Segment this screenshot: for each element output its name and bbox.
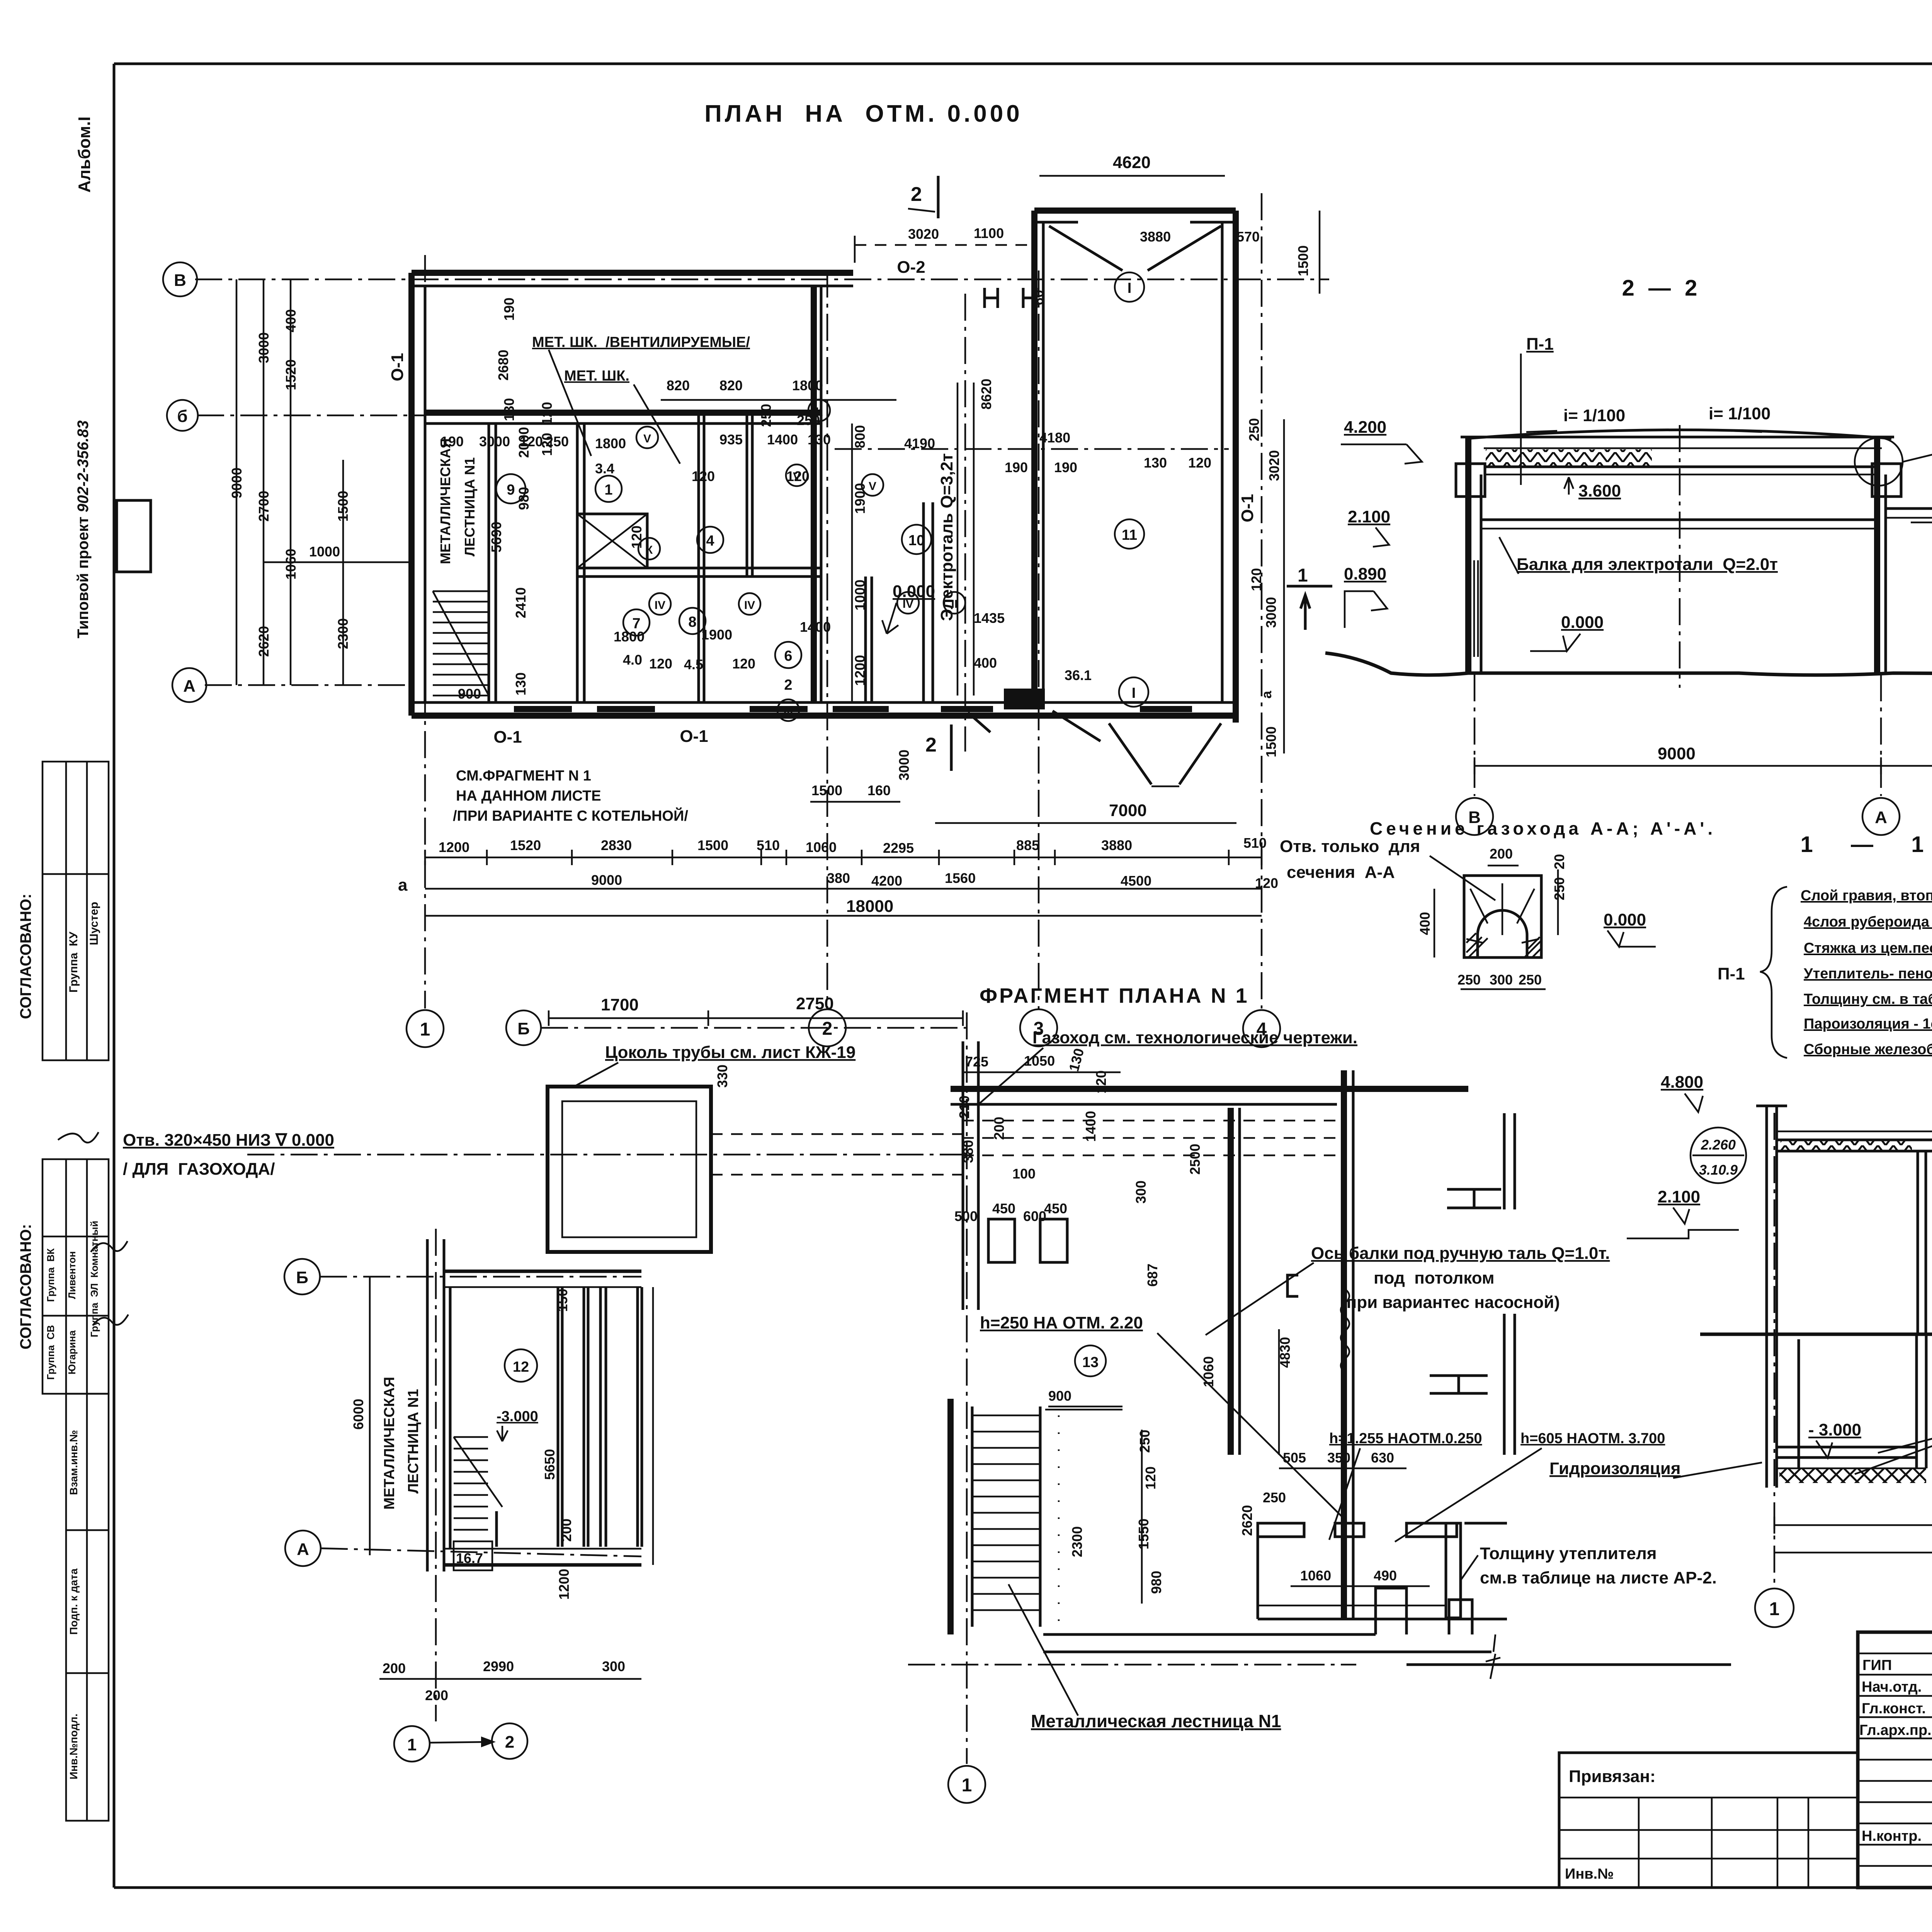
svg-text:2: 2 — [822, 1019, 833, 1039]
svg-text:Подп. к дата: Подп. к дата — [68, 1568, 80, 1635]
1-1 axis circle 1 — [1755, 1588, 1794, 1627]
chimney top dims — [549, 1017, 963, 1019]
svg-text:250: 250 — [758, 404, 774, 427]
svg-text:16.7: 16.7 — [456, 1550, 483, 1566]
svg-text:200: 200 — [1490, 846, 1513, 862]
svg-text:3.4: 3.4 — [595, 461, 614, 476]
svg-text:2.100: 2.100 — [1348, 507, 1390, 526]
svg-text:500: 500 — [954, 1208, 978, 1224]
svg-text:МЕТ. ШК.: МЕТ. ШК. — [564, 368, 629, 384]
1-1 floor line — [1700, 1333, 1932, 1336]
svg-text:980: 980 — [516, 487, 532, 510]
svg-text:Б: Б — [517, 1019, 530, 1038]
fragment axis circle 1 — [948, 1766, 985, 1803]
svg-text:4.800: 4.800 — [1661, 1073, 1703, 1092]
svg-text:725: 725 — [965, 1054, 988, 1070]
svg-text:450: 450 — [1044, 1201, 1067, 1216]
svg-text:4.5: 4.5 — [684, 656, 703, 672]
basement: axis B line — [320, 1276, 641, 1278]
svg-text:МЕТАЛЛИЧЕСКАЯ: МЕТАЛЛИЧЕСКАЯ — [381, 1377, 398, 1510]
svg-text:1800: 1800 — [595, 435, 626, 451]
room circle 4 — [697, 527, 723, 553]
svg-text:3880: 3880 — [1140, 229, 1171, 245]
svg-text:120: 120 — [1255, 875, 1278, 891]
svg-text:120: 120 — [1143, 1466, 1158, 1490]
svg-text:0.000: 0.000 — [893, 582, 935, 601]
partition x1808 — [697, 413, 700, 702]
svg-text:130: 130 — [513, 672, 529, 696]
stair room partition — [488, 423, 490, 702]
top dims of hall — [1039, 175, 1225, 177]
svg-text:190: 190 — [501, 298, 517, 321]
svg-text:Отв. только для: Отв. только для — [1280, 837, 1420, 856]
big staircase treads — [972, 1415, 1040, 1610]
svg-text:120: 120 — [649, 656, 672, 672]
svg-text:2000: 2000 — [516, 427, 532, 458]
fragment tall right wall — [1341, 1070, 1347, 1618]
svg-text:Привязан:: Привязан: — [1569, 1767, 1656, 1786]
svg-text:/ПРИ ВАРИАНТЕ С КОТЕЛЬНОЙ/: /ПРИ ВАРИАНТЕ С КОТЕЛЬНОЙ/ — [453, 807, 688, 824]
plan axis vertical 2 — [827, 270, 828, 1009]
svg-text:О-1: О-1 — [680, 727, 708, 746]
svg-text:Электроталь Q=3,2т: Электроталь Q=3,2т — [937, 453, 956, 621]
middle partition wall — [577, 567, 821, 570]
staircase left wall — [947, 1399, 954, 1634]
svg-text:4слоя рубероида на битумной ма: 4слоя рубероида на битумной мастике — [1804, 914, 1932, 930]
room circle II — [944, 592, 965, 614]
ground line 2-2 — [1325, 653, 1932, 675]
svg-text:120: 120 — [629, 526, 645, 549]
section 2-2 axis leaders — [1474, 674, 1476, 796]
svg-text:3020: 3020 — [1266, 450, 1282, 481]
partition x2240 tambour — [864, 577, 867, 702]
section 2-2 axis circle V — [1456, 798, 1493, 835]
svg-text:1: 1 — [604, 482, 612, 498]
svg-text:Группа ВК: Группа ВК — [45, 1248, 56, 1302]
svg-text:Ливентон: Ливентон — [66, 1251, 78, 1299]
left margin: approval table 1 — [43, 762, 109, 1060]
1-1 dim line 9000 4500 4500 — [1774, 1524, 1932, 1526]
svg-text:0.000: 0.000 — [1604, 910, 1646, 929]
plan bottom axis circles — [406, 1010, 444, 1047]
porch piers — [985, 288, 998, 308]
svg-text:Цоколь трубы см. лист КЖ-19: Цоколь трубы см. лист КЖ-19 — [605, 1043, 855, 1062]
1-1 left wall — [1765, 1106, 1768, 1488]
partition x1494 — [576, 423, 579, 702]
title block stamp rows — [1858, 1653, 1932, 1866]
svg-text:Югарина: Югарина — [66, 1330, 78, 1374]
svg-text:400: 400 — [283, 309, 299, 332]
basement top wall — [444, 1270, 641, 1273]
basement stair cell — [454, 1541, 492, 1570]
left wall capital — [1456, 464, 1485, 497]
flue corner hatch right — [1524, 937, 1541, 957]
svg-text:- 3.000: - 3.000 — [1808, 1420, 1861, 1439]
shaft box with cross — [577, 514, 647, 568]
svg-text:4: 4 — [706, 533, 714, 549]
svg-text:(при вариантес насосной): (при вариантес насосной) — [1341, 1293, 1560, 1312]
room circle IV a — [649, 593, 671, 615]
plan axis vertical 4 — [1261, 193, 1263, 1009]
svg-text:450: 450 — [992, 1201, 1015, 1216]
left margin: approval table 2 — [43, 1159, 109, 1394]
1-1 dim line 18000 — [1774, 1552, 1932, 1554]
svg-text:Гл.арх.пр.: Гл.арх.пр. — [1859, 1722, 1932, 1738]
svg-text:В: В — [174, 271, 186, 290]
svg-text:300: 300 — [602, 1658, 625, 1674]
basement partitions right — [557, 1287, 560, 1547]
boiler room bottom walls crosshatched — [1258, 1523, 1461, 1618]
plan axis circle B — [163, 262, 197, 296]
svg-text:1000: 1000 — [309, 544, 340, 560]
svg-text:Слой гравия, втопленный вмасти: Слой гравия, втопленный вмастику — [1801, 888, 1932, 904]
svg-text:Н.контр.: Н.контр. — [1862, 1828, 1922, 1844]
svg-text:3000: 3000 — [256, 332, 272, 363]
beam axis bracket symbol — [1287, 1275, 1298, 1296]
hall gate splay diagonals bottom — [1109, 723, 1151, 784]
basement: axis A line — [321, 1548, 641, 1556]
svg-text:Группа КУ: Группа КУ — [67, 932, 80, 993]
flue note leader — [978, 1048, 1043, 1105]
svg-text:1800: 1800 — [792, 378, 823, 393]
plan axis circle A — [172, 668, 206, 702]
svg-text:13: 13 — [1082, 1354, 1099, 1371]
room circle 6 with 2 and III — [775, 642, 801, 668]
basement room circle 12 — [505, 1349, 537, 1382]
bottom outer wall — [412, 713, 1236, 719]
1-1 basement pit walls — [1798, 1339, 1800, 1468]
svg-text:Толщину утеплителя: Толщину утеплителя — [1480, 1544, 1657, 1563]
svg-text:1500: 1500 — [335, 491, 351, 522]
svg-text:Группа СВ: Группа СВ — [45, 1325, 56, 1380]
svg-text:400: 400 — [1417, 912, 1433, 935]
svg-text:150: 150 — [554, 1289, 570, 1312]
svg-text:Альбом.I: Альбом.I — [75, 116, 94, 192]
svg-text:П-1: П-1 — [1526, 335, 1554, 354]
svg-text:а: а — [398, 876, 408, 895]
svg-text:Сборные железобетонные плиты: Сборные железобетонные плиты — [1804, 1041, 1932, 1058]
svg-text:-3.000: -3.000 — [497, 1408, 538, 1425]
svg-text:I: I — [1132, 685, 1136, 701]
dim line 4190-4180 dashdot — [835, 448, 1229, 450]
svg-text:2.260: 2.260 — [1701, 1137, 1736, 1153]
svg-text:Взам.инв.№: Взам.инв.№ — [68, 1430, 80, 1495]
svg-text:350: 350 — [1327, 1450, 1350, 1466]
svg-text:1060: 1060 — [1201, 1356, 1216, 1387]
room circle V c — [862, 474, 883, 496]
room circle V — [636, 427, 658, 448]
svg-text:1500: 1500 — [1295, 245, 1311, 276]
svg-text:0.890: 0.890 — [1344, 565, 1386, 583]
svg-text:800: 800 — [852, 425, 868, 448]
svg-text:600: 600 — [1023, 1208, 1046, 1224]
fragment dim chain lines — [963, 1071, 1121, 1073]
svg-text:120: 120 — [539, 402, 555, 425]
left wall lower window strips — [1470, 560, 1478, 657]
svg-text:9: 9 — [507, 482, 515, 498]
svg-text:1200: 1200 — [439, 839, 469, 855]
svg-text:2 — 2: 2 — 2 — [1622, 276, 1701, 301]
svg-text:под потолком: под потолком — [1374, 1269, 1495, 1287]
label h=250 leader — [1157, 1333, 1344, 1519]
roof camber top line — [1466, 430, 1891, 439]
fragment east wall upper — [1503, 1113, 1506, 1209]
fragment east wall lower — [1503, 1314, 1506, 1455]
svg-text:2: 2 — [784, 677, 792, 693]
svg-text:2620: 2620 — [1239, 1505, 1255, 1536]
svg-text:2620: 2620 — [256, 626, 272, 657]
svg-text:490: 490 — [1374, 1568, 1397, 1583]
h leaders — [1329, 1448, 1360, 1540]
svg-text:380: 380 — [827, 870, 850, 886]
svg-text:9000: 9000 — [1658, 744, 1696, 763]
svg-text:Утеплитель- пенобетон ϒ= 400 к: Утеплитель- пенобетон ϒ= 400 кг/ м³ — [1804, 966, 1932, 982]
svg-text:ПЛАН НА ОТМ. 0.000: ПЛАН НА ОТМ. 0.000 — [704, 100, 1022, 127]
met shk leader lines — [549, 350, 591, 456]
plan axis line A — [205, 684, 412, 686]
1-1 roof slab — [1778, 1139, 1932, 1141]
chimney axis line — [541, 1027, 966, 1029]
svg-text:190: 190 — [1054, 459, 1077, 475]
svg-text:687: 687 — [1145, 1264, 1160, 1287]
plan axis line b — [197, 415, 425, 417]
room circle I top — [1115, 272, 1144, 302]
svg-text:2300: 2300 — [1069, 1526, 1085, 1557]
svg-text:3880: 3880 — [1101, 837, 1132, 853]
svg-text:20: 20 — [1551, 854, 1567, 869]
left margin: inventory strip table — [66, 1394, 109, 1821]
dim 900 line — [1045, 1409, 1122, 1411]
svg-text:О-2: О-2 — [897, 258, 925, 277]
svg-text:Сечение газохода А-А; А'-А'.: Сечение газохода А-А; А'-А'. — [1370, 818, 1716, 838]
svg-text:А: А — [183, 677, 196, 696]
svg-text:2: 2 — [925, 734, 937, 756]
svg-text:120: 120 — [786, 468, 810, 484]
svg-text:4500: 4500 — [1121, 873, 1151, 889]
flue note leader — [1430, 856, 1495, 900]
svg-text:120: 120 — [1248, 568, 1264, 591]
room circle 1 — [595, 476, 622, 502]
fragment axis line vertical 1 — [966, 1012, 968, 1764]
svg-text:1: 1 — [962, 1775, 972, 1796]
gas duct axis long line — [247, 1154, 962, 1156]
svg-text:900: 900 — [1048, 1388, 1071, 1404]
svg-text:ФРАГМЕНТ ПЛАНА N 1: ФРАГМЕНТ ПЛАНА N 1 — [980, 984, 1249, 1007]
basement axis circles 1 2 — [394, 1726, 430, 1762]
svg-text:Отв. 320×450 НИЗ ∇ 0.000: Отв. 320×450 НИЗ ∇ 0.000 — [123, 1131, 334, 1150]
room circle 11 — [1115, 519, 1144, 549]
inner top wall — [425, 410, 821, 416]
svg-text:СОГЛАСОВАНО:: СОГЛАСОВАНО: — [17, 894, 34, 1019]
svg-text:см.в таблице на листе АР-2.: см.в таблице на листе АР-2. — [1480, 1568, 1717, 1587]
svg-text:120: 120 — [692, 468, 715, 484]
svg-text:1: 1 — [420, 1019, 430, 1040]
svg-text:510: 510 — [757, 837, 780, 853]
svg-text:ГИП: ГИП — [1862, 1657, 1892, 1673]
svg-text:4190: 4190 — [904, 435, 935, 451]
gas duct dashed lines to chimney — [711, 1134, 962, 1175]
hall left wall — [1031, 211, 1037, 702]
stair treads — [433, 591, 489, 696]
corner pier block — [1004, 689, 1045, 709]
room circle V b — [786, 464, 808, 486]
bottom dim chain A — [425, 857, 1262, 859]
svg-text:Инв.№подл.: Инв.№подл. — [68, 1714, 80, 1779]
svg-text:1520: 1520 — [510, 837, 541, 853]
svg-text:2750: 2750 — [796, 994, 834, 1013]
svg-text:I: I — [1128, 280, 1132, 296]
svg-text:IV: IV — [744, 599, 755, 612]
os balki leader — [1206, 1263, 1314, 1335]
privyazan grid — [1559, 1798, 1858, 1888]
basement axis line down to circle 1 — [435, 1229, 437, 1721]
outside metal stair rect — [117, 500, 151, 572]
marker circle 2.260/3.10.9 — [1690, 1128, 1746, 1183]
svg-text:Гл.конст.: Гл.конст. — [1862, 1701, 1926, 1717]
svg-text:200: 200 — [991, 1117, 1007, 1140]
crane runway beam lines — [957, 383, 959, 696]
section 2-2 left wall — [1465, 437, 1471, 674]
svg-text:2: 2 — [911, 183, 922, 206]
svg-text:3000: 3000 — [1263, 597, 1279, 628]
basement dim 6000 — [369, 1277, 371, 1555]
svg-text:0.000: 0.000 — [1561, 613, 1604, 632]
lower roof right span — [1886, 507, 1932, 510]
svg-text:2.100: 2.100 — [1658, 1187, 1700, 1206]
svg-text:Б: Б — [296, 1268, 308, 1287]
I-beam symbol lower — [1430, 1376, 1488, 1393]
svg-text:120: 120 — [1093, 1070, 1109, 1094]
room circle 9 — [496, 474, 526, 503]
plan axis circle b — [167, 400, 198, 431]
plan top outer wall — [412, 270, 853, 276]
title block outer box — [1858, 1632, 1932, 1888]
staircase side rails — [971, 1406, 974, 1627]
partition x2390 — [922, 502, 925, 702]
slope arrows — [1526, 431, 1557, 432]
svg-text:1400: 1400 — [767, 432, 798, 447]
svg-text:1200: 1200 — [852, 655, 868, 686]
basement stair small bar — [495, 1511, 498, 1547]
svg-text:2680: 2680 — [495, 350, 511, 381]
svg-text:5690: 5690 — [488, 522, 504, 553]
svg-text:210: 210 — [956, 1095, 972, 1119]
svg-text:h=250 НА ОТМ. 2.20: h=250 НА ОТМ. 2.20 — [980, 1313, 1143, 1332]
svg-text:СМ.ФРАГМЕНТ N 1: СМ.ФРАГМЕНТ N 1 — [456, 768, 591, 784]
fragment ground dash line — [908, 1664, 1356, 1666]
border frame left line — [113, 64, 116, 1888]
dim chain 820-820-1800 line — [661, 399, 896, 401]
basement: axis B circle — [284, 1259, 320, 1294]
svg-text:250: 250 — [1551, 877, 1567, 900]
fragment duct dashed lines — [962, 1121, 1337, 1155]
svg-text:250: 250 — [797, 412, 820, 428]
right wall capital — [1872, 464, 1901, 497]
svg-text:130: 130 — [808, 432, 831, 447]
svg-text:/ ДЛЯ ГАЗОХОДА/: / ДЛЯ ГАЗОХОДА/ — [123, 1160, 275, 1179]
svg-text:3.10.9: 3.10.9 — [1699, 1162, 1738, 1178]
flue dims bottom 250 300 250 — [1461, 988, 1546, 990]
privyazan box — [1559, 1753, 1858, 1888]
svg-text:б: б — [177, 407, 187, 426]
svg-text:h=1.255 НАОТМ.0.250: h=1.255 НАОТМ.0.250 — [1329, 1430, 1482, 1447]
flue radial joints — [1466, 883, 1539, 943]
border frame bottom line — [114, 1886, 1932, 1889]
dim 7000 — [935, 822, 1236, 824]
svg-text:Типовой проект 902-2-356.83: Типовой проект 902-2-356.83 — [75, 420, 92, 638]
room circle I bottom — [1119, 677, 1148, 707]
svg-text:200: 200 — [383, 1660, 406, 1676]
flue masonry outer box — [1464, 876, 1541, 957]
section 2-2 mid axis dashdot — [1679, 425, 1681, 688]
svg-text:i= 1/100: i= 1/100 — [1563, 406, 1625, 425]
svg-text:9000: 9000 — [591, 872, 622, 888]
svg-text:Шустер: Шустер — [88, 902, 100, 945]
ground break mark — [1486, 1634, 1500, 1679]
basement outer left wall — [426, 1239, 429, 1571]
svg-text:1: 1 — [1769, 1599, 1780, 1619]
svg-text:2410: 2410 — [513, 587, 529, 618]
P-1 notes block — [1801, 888, 1932, 1058]
svg-text:9000: 9000 — [229, 468, 245, 498]
svg-text:2300: 2300 — [335, 618, 351, 649]
fragment left wall — [962, 1041, 964, 1310]
1-1 roof top thin line — [1778, 1131, 1932, 1133]
svg-text:2700: 2700 — [256, 491, 272, 522]
svg-text:МЕТ. ШК. /ВЕНТИЛИРУЕМЫЕ/: МЕТ. ШК. /ВЕНТИЛИРУЕМЫЕ/ — [532, 334, 750, 350]
room circle 10 — [902, 525, 931, 554]
svg-text:120: 120 — [1188, 455, 1211, 471]
fragment mid vertical wall — [1228, 1108, 1234, 1455]
svg-text:130: 130 — [1066, 1046, 1087, 1073]
svg-text:Ось балки под ручную таль Q=1.: Ось балки под ручную таль Q=1.0т. — [1311, 1244, 1610, 1263]
svg-text:4.0: 4.0 — [623, 652, 642, 668]
fragment room circle 13 — [1075, 1345, 1106, 1376]
svg-text:12: 12 — [513, 1359, 529, 1375]
svg-text:100: 100 — [1012, 1166, 1036, 1182]
svg-text:1500: 1500 — [697, 837, 728, 853]
svg-text:200: 200 — [558, 1519, 574, 1542]
svg-text:Пароизоляция - 1слой рубероид: Пароизоляция - 1слой рубероида — [1804, 1016, 1932, 1032]
svg-text:330: 330 — [714, 1065, 730, 1088]
svg-text:1500: 1500 — [811, 782, 842, 798]
svg-text:1060: 1060 — [283, 549, 299, 580]
svg-text:1: 1 — [407, 1735, 417, 1754]
spring wavy line — [1341, 1289, 1349, 1372]
svg-text:1500: 1500 — [1263, 726, 1279, 757]
electrotal axis dashdot — [964, 294, 966, 752]
svg-text:сечения А-А: сечения А-А — [1287, 863, 1395, 882]
plan axis vertical 3 — [1038, 270, 1040, 1009]
svg-text:120: 120 — [732, 656, 755, 672]
arrow between 1 and 2 — [430, 1742, 492, 1743]
svg-text:2990: 2990 — [483, 1658, 514, 1674]
left vertical dim chains — [236, 279, 238, 685]
svg-text:820: 820 — [667, 378, 690, 393]
hall gate splay diagonals top — [1049, 226, 1122, 270]
svg-text:510: 510 — [1243, 835, 1267, 851]
bottom plinth rails — [1043, 1634, 1492, 1652]
svg-text:V: V — [643, 432, 651, 445]
svg-text:1800: 1800 — [614, 629, 645, 645]
1-1 axis leaders — [1774, 1113, 1932, 1586]
svg-text:4.200: 4.200 — [1344, 418, 1386, 437]
basement room left line — [449, 1287, 452, 1549]
staircase dotted line — [1058, 1415, 1060, 1627]
svg-text:i= 1/100: i= 1/100 — [1709, 404, 1770, 423]
svg-text:3000: 3000 — [479, 434, 510, 449]
chimney plan inner square — [562, 1101, 696, 1237]
